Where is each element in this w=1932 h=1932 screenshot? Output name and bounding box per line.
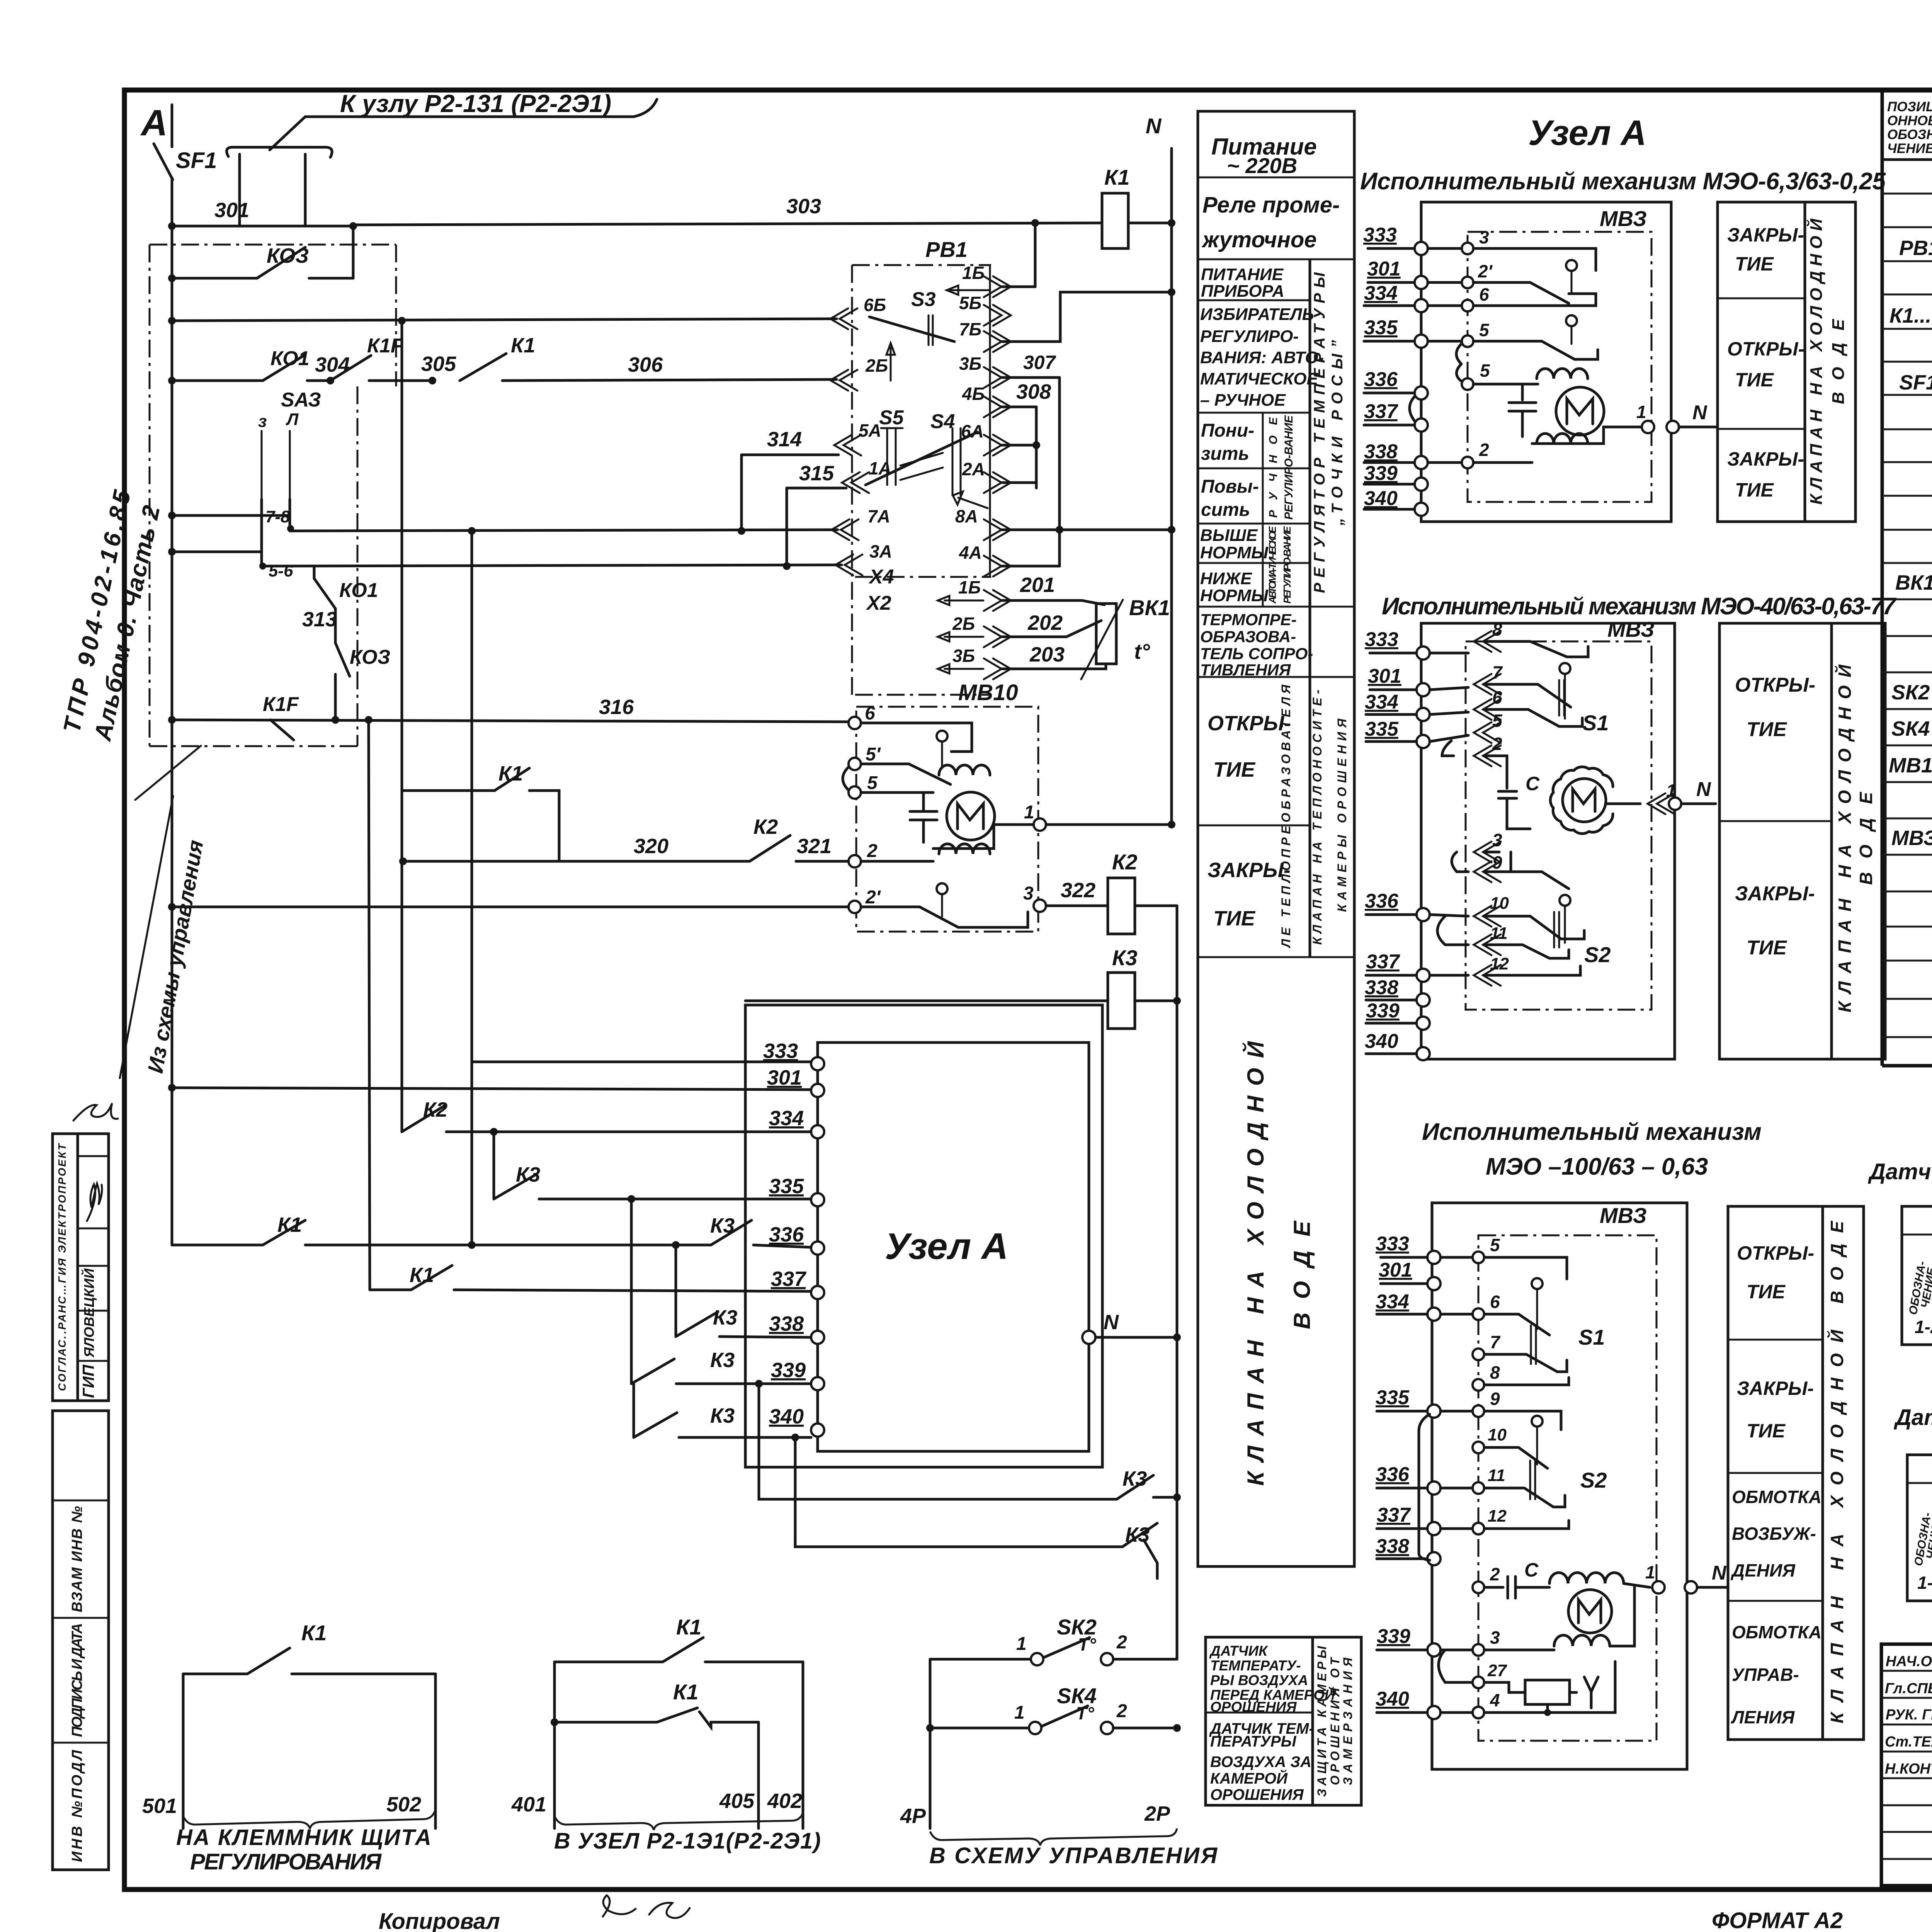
- svg-text:7: 7: [1492, 662, 1503, 682]
- svg-text:Н.КОНТР.: Н.КОНТР.: [1885, 1761, 1932, 1777]
- svg-text:К1: К1: [673, 1680, 699, 1704]
- svg-text:3: 3: [1492, 830, 1502, 850]
- sensor note table: [1206, 1637, 1361, 1805]
- РВ1 pin 4Б: [984, 396, 1011, 417]
- wire pin1/N: [1624, 1583, 1650, 1587]
- svg-text:11: 11: [1488, 1466, 1505, 1485]
- pin 5 lower: [1462, 378, 1473, 390]
- svg-text:6: 6: [1479, 284, 1489, 304]
- svg-text:ТИЕ: ТИЕ: [1735, 479, 1774, 501]
- svg-text:АВТОМА-ТИЧЕСКОЕ: АВТОМА-ТИЧЕСКОЕ: [1267, 526, 1278, 604]
- wires to pin1/N: [1473, 383, 1538, 386]
- svg-text:К1: К1: [1104, 165, 1130, 189]
- svg-text:Пони-: Пони-: [1201, 420, 1254, 441]
- wire 321: [796, 860, 849, 863]
- svg-text:К1F: К1F: [367, 335, 403, 357]
- svg-text:6: 6: [1490, 1292, 1500, 1312]
- РВ1 pin 2А: [984, 472, 1011, 493]
- svg-text:УПРАВ-: УПРАВ-: [1732, 1665, 1799, 1685]
- РВ1 pin 5Б: [984, 305, 1011, 326]
- contact К3 into 340: [633, 1384, 635, 1437]
- svg-text:РВ1: РВ1: [925, 237, 968, 262]
- svg-text:5: 5: [1490, 1235, 1500, 1255]
- bracket to Р2-131: [227, 147, 332, 157]
- valve action table МЭО-100: [1728, 1206, 1864, 1740]
- svg-text:405: 405: [719, 1789, 755, 1813]
- svg-text:SК4: SК4: [1891, 717, 1930, 740]
- svg-text:ПЕРАТУРЫ: ПЕРАТУРЫ: [1210, 1733, 1297, 1750]
- svg-text:~ 220В: ~ 220В: [1227, 153, 1297, 178]
- svg-text:401: 401: [511, 1793, 546, 1816]
- svg-text:Л: Л: [286, 410, 299, 429]
- motor МЭО-40 with scalloped winding: [1563, 779, 1606, 822]
- jumper 336-337: [1410, 396, 1415, 422]
- svg-text:ДАТЧИК: ДАТЧИК: [1209, 1643, 1268, 1659]
- svg-text:335: 335: [1376, 1386, 1410, 1409]
- svg-text:335: 335: [769, 1175, 804, 1198]
- terminal 335.2: [1417, 735, 1430, 748]
- valve action table (МЭО-40): [1719, 623, 1885, 1059]
- N bus (upper): [1170, 148, 1173, 825]
- svg-text:Исполнительный механизм МЭО-: Исполнительный механизм МЭО-40/63-0,63-7…: [1382, 593, 1897, 620]
- wire 6А stub: [1002, 444, 1036, 447]
- svg-text:ТИЕ: ТИЕ: [1747, 937, 1787, 959]
- svg-text:2Б: 2Б: [952, 614, 975, 634]
- svg-text:316: 316: [599, 696, 634, 719]
- svg-text:305: 305: [421, 352, 456, 376]
- svg-text:4: 4: [1490, 1690, 1500, 1710]
- svg-text:К3: К3: [710, 1349, 735, 1372]
- X2 pin 3Б: [984, 658, 1011, 679]
- svg-text:ДЕНИЯ: ДЕНИЯ: [1730, 1560, 1796, 1580]
- svg-text:5: 5: [867, 773, 878, 793]
- svg-text:N: N: [1712, 1562, 1727, 1584]
- stator coil lower: [939, 844, 990, 854]
- svg-text:К2: К2: [753, 815, 778, 838]
- svg-text:322: 322: [1061, 879, 1095, 902]
- wire 1Б-303 riser: [1002, 286, 1035, 288]
- contact К3 into 335: [493, 1132, 495, 1199]
- svg-text:ЗАКРЫ-: ЗАКРЫ-: [1737, 1378, 1814, 1399]
- svg-text:В СХЕМУ УПРАВЛЕНИЯ: В СХЕМУ УПРАВЛЕНИЯ: [929, 1843, 1218, 1868]
- wire 333: [471, 531, 473, 1245]
- svg-text:S1: S1: [1578, 1325, 1605, 1349]
- dash-dot cabinet boundary: [150, 244, 396, 246]
- svg-text:N: N: [1692, 401, 1708, 424]
- terminal 2: [849, 855, 861, 867]
- svg-text:ЗАКРЫ-: ЗАКРЫ-: [1727, 448, 1804, 470]
- svg-text:t°: t°: [1134, 639, 1150, 663]
- limit switch 1 (МЭО-6,3): [1566, 260, 1577, 271]
- valve action table (МЭО-6,3): [1718, 202, 1855, 522]
- svg-text:5-6: 5-6: [269, 561, 293, 580]
- svg-text:SК2: SК2: [1891, 681, 1930, 704]
- terminal box 401/405/402: [553, 1662, 556, 1828]
- SК2 diagram: [1867, 1159, 1932, 1345]
- svg-text:8: 8: [1490, 1362, 1500, 1383]
- svg-text:ОННОЕ: ОННОЕ: [1887, 113, 1932, 128]
- svg-text:РЕГУЛИРО-: РЕГУЛИРО-: [1200, 327, 1299, 346]
- svg-text:КЛАПАН НА ТЕПЛОНОСИТЕ-: КЛАПАН НА ТЕПЛОНОСИТЕ-: [1310, 690, 1324, 945]
- svg-text:N: N: [1696, 778, 1711, 801]
- svg-text:НОРМЫ: НОРМЫ: [1200, 586, 1269, 605]
- svg-text:335: 335: [1364, 316, 1398, 339]
- terminal 301.2: [1417, 683, 1430, 696]
- svg-text:1: 1: [1024, 802, 1034, 823]
- svg-text:Повы-: Повы-: [1201, 476, 1259, 497]
- terminal 337.3: [1427, 1522, 1440, 1535]
- svg-text:336: 336: [1376, 1463, 1410, 1486]
- svg-text:402: 402: [767, 1789, 802, 1813]
- svg-text:338: 338: [1376, 1535, 1409, 1558]
- stator coils: [1537, 369, 1588, 379]
- svg-text:12: 12: [1488, 1507, 1507, 1526]
- svg-text:S5: S5: [879, 406, 904, 429]
- wire 4А stub: [1002, 565, 1060, 568]
- svg-text:КО1: КО1: [270, 347, 310, 370]
- svg-text:502: 502: [386, 1793, 421, 1816]
- svg-text:КО1: КО1: [339, 579, 378, 602]
- svg-text:1-2: 1-2: [1915, 1317, 1932, 1337]
- wire 202: [1002, 621, 1101, 637]
- pin 6: [1462, 300, 1473, 311]
- svg-text:337: 337: [1366, 951, 1400, 973]
- wire 7А row: [290, 530, 838, 531]
- svg-text:ТЕЛЬ СОПРО-: ТЕЛЬ СОПРО-: [1200, 645, 1313, 663]
- N bus (lower): [1176, 906, 1179, 1659]
- svg-text:К узлу Р2-131 (Р2-2Э1): К узлу Р2-131 (Р2-2Э1): [340, 90, 611, 117]
- svg-text:2′: 2′: [1478, 261, 1493, 281]
- РВ1 pin 3А (left): [835, 554, 862, 575]
- svg-text:Ст.ТЕХН.: Ст.ТЕХН.: [1885, 1734, 1932, 1750]
- wire to РВ1 6Б: [172, 319, 837, 321]
- wire 336 with К1 and К3: [172, 1244, 263, 1247]
- svg-text:ОРОШЕНИЯ ОТ: ОРОШЕНИЯ ОТ: [1328, 1657, 1342, 1785]
- РВ1 pin 1А (left): [842, 472, 869, 493]
- contact КО1: [263, 355, 305, 381]
- svg-text:501: 501: [142, 1794, 177, 1818]
- left margin strip: upper group (согласовано): [53, 1134, 109, 1401]
- terminal 334.2: [1417, 708, 1430, 721]
- svg-text:333: 333: [1365, 628, 1398, 651]
- svg-text:334: 334: [1365, 691, 1398, 713]
- contact КОЗ (upper): [172, 277, 257, 280]
- wire 301 to node: [172, 1088, 811, 1090]
- svg-text:з: з: [258, 412, 267, 431]
- svg-text:340: 340: [1364, 487, 1398, 510]
- svg-text:1: 1: [1636, 402, 1646, 422]
- svg-text:РЕГУЛИРОВАНИЯ: РЕГУЛИРОВАНИЯ: [190, 1849, 382, 1874]
- wire 201: [1002, 600, 1104, 605]
- svg-text:ОРОШЕНИЯ: ОРОШЕНИЯ: [1210, 1699, 1297, 1715]
- svg-text:КАМЕРЫ ОРОШЕНИЯ: КАМЕРЫ ОРОШЕНИЯ: [1335, 718, 1349, 912]
- svg-text:7А: 7А: [867, 506, 890, 526]
- svg-text:333: 333: [1376, 1233, 1409, 1255]
- svg-text:К2: К2: [1112, 850, 1138, 874]
- svg-text:ПОДПИСЬ И ДАТА: ПОДПИСЬ И ДАТА: [69, 1623, 85, 1737]
- terminal 301.1: [1415, 276, 1428, 289]
- svg-text:ТИЕ: ТИЕ: [1747, 718, 1787, 741]
- svg-text:3: 3: [1023, 883, 1034, 904]
- terminal 334.1: [1415, 299, 1428, 312]
- svg-text:337: 337: [1377, 1504, 1411, 1526]
- terminal 333: [811, 1057, 824, 1070]
- svg-text:К3: К3: [710, 1214, 735, 1237]
- handwritten mark above strip: [73, 1103, 118, 1121]
- svg-text:ТИЕ: ТИЕ: [1747, 1420, 1786, 1442]
- svg-text:3Б: 3Б: [959, 354, 981, 374]
- svg-text:Узел А: Узел А: [885, 1226, 1008, 1267]
- svg-text:N: N: [1104, 1311, 1119, 1334]
- svg-text:ФОРМАТ А2: ФОРМАТ А2: [1712, 1908, 1843, 1932]
- svg-text:К1F: К1F: [263, 693, 299, 716]
- svg-text:МВЗ: МВЗ: [1600, 206, 1647, 231]
- svg-text:1: 1: [1645, 1562, 1655, 1582]
- svg-text:ЯЛОВЕЦКИЙ: ЯЛОВЕЦКИЙ: [81, 1268, 97, 1358]
- svg-text:338: 338: [769, 1312, 804, 1335]
- svg-text:S3: S3: [911, 288, 936, 311]
- terminal 1: [1034, 818, 1046, 831]
- svg-text:К3: К3: [713, 1306, 737, 1329]
- svg-text:10: 10: [1488, 1425, 1507, 1444]
- contact К1: [460, 354, 506, 381]
- svg-text:340: 340: [1365, 1030, 1398, 1053]
- svg-text:7: 7: [1490, 1332, 1501, 1352]
- svg-text:8: 8: [1492, 619, 1502, 639]
- coupling links S5/S4: [866, 432, 978, 485]
- terminal 336.2: [1417, 908, 1430, 921]
- svg-text:10: 10: [1490, 894, 1509, 913]
- svg-text:1: 1: [1014, 1702, 1025, 1723]
- svg-text:ПИТАНИЕ: ПИТАНИЕ: [1201, 265, 1284, 284]
- svg-text:РВ1: РВ1: [1899, 236, 1932, 260]
- wire to pin1: [1605, 803, 1640, 805]
- svg-text:314: 314: [767, 428, 802, 451]
- svg-text:S4: S4: [930, 410, 955, 433]
- terminal 338.3: [1427, 1552, 1440, 1565]
- svg-text:ПРИБОРА: ПРИБОРА: [1201, 282, 1284, 301]
- SA3 feed wires: [172, 514, 290, 517]
- terminal 336: [811, 1242, 824, 1255]
- limit switch 2 (МЭО-6,3): [1566, 315, 1577, 326]
- svg-text:5Б: 5Б: [959, 293, 981, 313]
- main phase bus: [171, 105, 173, 147]
- svg-text:К3: К3: [1112, 946, 1138, 970]
- thermal sensor BK1: [1096, 604, 1116, 664]
- svg-text:3Б: 3Б: [952, 646, 975, 666]
- svg-text:ЧЕНИЕ: ЧЕНИЕ: [1887, 141, 1932, 156]
- svg-text:КАМЕРОЙ: КАМЕРОЙ: [1210, 1769, 1288, 1787]
- svg-text:ТИЕ: ТИЕ: [1213, 758, 1256, 781]
- РВ1 pin 6А: [984, 435, 1011, 456]
- left margin strip: lower group (инв. номера): [53, 1411, 109, 1870]
- svg-text:313: 313: [302, 608, 337, 631]
- wire 306: [502, 379, 837, 381]
- svg-text:Узел А: Узел А: [1528, 113, 1646, 153]
- terminal 2': [849, 901, 861, 913]
- wire 315: [787, 487, 846, 490]
- svg-text:5А: 5А: [859, 420, 881, 440]
- svg-text:337: 337: [771, 1267, 807, 1291]
- svg-text:340: 340: [1376, 1688, 1409, 1710]
- svg-text:ПОЗИЦИ-: ПОЗИЦИ-: [1887, 99, 1932, 114]
- РВ1 pin 5А (left): [834, 435, 861, 456]
- svg-text:К1: К1: [676, 1615, 702, 1639]
- svg-text:2: 2: [1116, 1701, 1127, 1721]
- svg-text:337: 337: [1364, 400, 1398, 423]
- terminal 337.1: [1415, 418, 1428, 432]
- terminal 337: [811, 1286, 824, 1299]
- motor МВ10: [947, 792, 995, 840]
- bottom wire B with К3: [795, 1437, 1122, 1547]
- svg-text:12: 12: [1490, 954, 1509, 973]
- svg-text:МЭО –100/63 – 0,63: МЭО –100/63 – 0,63: [1486, 1153, 1708, 1180]
- svg-text:ЛЕНИЯ: ЛЕНИЯ: [1731, 1707, 1795, 1727]
- svg-text:жуточное: жуточное: [1201, 227, 1317, 252]
- svg-text:339: 339: [1377, 1625, 1410, 1648]
- svg-text:339: 339: [771, 1359, 806, 1382]
- wire 2А stub: [1002, 481, 1036, 484]
- contact К1F: [330, 355, 371, 381]
- svg-text:Исполнительный механизм: Исполнительный механизм: [1422, 1119, 1762, 1145]
- svg-text:РЕГУЛИРО-ВАНИЕ: РЕГУЛИРО-ВАНИЕ: [1281, 526, 1293, 604]
- terminal 5': [849, 758, 861, 770]
- riser К1F to 333: [369, 720, 370, 1290]
- РВ1 pin 8А: [984, 519, 1011, 540]
- svg-text:МАТИЧЕСКОЕ: МАТИЧЕСКОЕ: [1200, 369, 1318, 388]
- svg-text:ВОЗДУХА ЗА: ВОЗДУХА ЗА: [1210, 1753, 1311, 1770]
- svg-text:2′: 2′: [865, 887, 881, 908]
- wire 316 with К1F contact: [172, 720, 852, 722]
- svg-text:ОБОЗНА-: ОБОЗНА-: [1887, 127, 1932, 142]
- svg-text:202: 202: [1027, 611, 1063, 634]
- МВ3 block (МЭО-6,3): [1421, 202, 1671, 522]
- svg-text:МВЗ: МВЗ: [1607, 617, 1655, 641]
- limit switch upper МВ10: [937, 731, 947, 742]
- wire 3А row: [262, 565, 842, 566]
- svg-text:301: 301: [214, 199, 249, 222]
- X2 pin 1Б: [984, 590, 1011, 611]
- armature coil: [1554, 1635, 1610, 1646]
- electromagnet Y: [1525, 1680, 1570, 1704]
- svg-text:РУК. ГР.: РУК. ГР.: [1886, 1707, 1932, 1723]
- svg-text:зить: зить: [1201, 444, 1249, 464]
- svg-text:ОБРАЗОВА-: ОБРАЗОВА-: [1200, 628, 1296, 646]
- terminal 339: [811, 1377, 824, 1390]
- SK2 / SK4 circuit: [929, 1659, 932, 1828]
- РВ1 pin 7Б: [984, 331, 1011, 352]
- svg-text:ВОЗБУЖ-: ВОЗБУЖ-: [1732, 1524, 1816, 1544]
- svg-text:ТИЕ: ТИЕ: [1213, 907, 1256, 930]
- terminal 340.1: [1415, 503, 1428, 516]
- svg-text:338: 338: [1364, 440, 1398, 463]
- svg-text:Т°: Т°: [1076, 1703, 1094, 1723]
- terminal 340.2: [1417, 1047, 1430, 1060]
- svg-text:Х2: Х2: [866, 592, 891, 614]
- svg-text:1Б: 1Б: [958, 577, 981, 597]
- terminal box 501/502: [182, 1674, 185, 1828]
- pin 2': [1462, 277, 1473, 288]
- svg-text:334: 334: [769, 1107, 804, 1130]
- arrow up (setpoint): [886, 343, 895, 381]
- svg-text:ТЕРМОПРЕ-: ТЕРМОПРЕ-: [1200, 611, 1297, 629]
- svg-text:6Б: 6Б: [864, 295, 886, 315]
- terminal 5: [849, 786, 861, 799]
- wire to 2' from bus: [172, 906, 849, 908]
- terminal 337.2: [1417, 969, 1430, 982]
- capacitor МВ10: [910, 793, 937, 842]
- svg-text:6: 6: [1492, 687, 1502, 707]
- svg-text:ИЗБИРАТЕЛЬ: ИЗБИРАТЕЛЬ: [1200, 305, 1314, 324]
- terminal 340: [811, 1423, 824, 1437]
- svg-text:4Б: 4Б: [962, 384, 985, 404]
- svg-text:ТИЕ: ТИЕ: [1735, 369, 1774, 391]
- svg-text:Датчик температуры: Датчик температуры: [1867, 1159, 1932, 1184]
- svg-text:321: 321: [797, 835, 832, 858]
- arrow into 5Б: [947, 286, 989, 295]
- РВ1 pin 6Б (left): [830, 308, 857, 329]
- wire 322 / coil К2: [1046, 905, 1108, 907]
- wire 303: [353, 223, 1102, 225]
- wiring 5 to motor: [861, 791, 933, 794]
- svg-text:РЫ ВОЗДУХА: РЫ ВОЗДУХА: [1210, 1672, 1308, 1688]
- svg-text:333: 333: [1363, 224, 1397, 246]
- svg-text:303: 303: [786, 195, 821, 218]
- svg-text:НОРМЫ: НОРМЫ: [1200, 543, 1269, 562]
- terminal 335.1: [1415, 335, 1428, 348]
- jumper 5'-5: [843, 767, 849, 790]
- contact К3 into 338: [675, 1245, 677, 1337]
- wire 7Б to N bus: [1002, 292, 1172, 342]
- wire 1 to N bus: [1046, 823, 1172, 826]
- svg-text:В УЗЕЛ Р2-1Э1(Р2-2Э1): В УЗЕЛ Р2-1Э1(Р2-2Э1): [554, 1828, 821, 1854]
- svg-text:ОБМОТКА: ОБМОТКА: [1732, 1487, 1821, 1507]
- svg-text:338: 338: [1365, 976, 1398, 999]
- svg-text:3: 3: [1479, 227, 1489, 247]
- motor МЭО-100: [1568, 1590, 1612, 1633]
- svg-text:2: 2: [1492, 734, 1502, 754]
- pin 3: [1462, 243, 1473, 254]
- svg-text:339: 339: [1364, 462, 1398, 485]
- wire 301: [172, 225, 353, 228]
- svg-text:ОТКРЫ-: ОТКРЫ-: [1737, 1242, 1814, 1264]
- svg-text:– РУЧНОЕ: – РУЧНОЕ: [1200, 391, 1286, 410]
- wire 307: [1002, 376, 1060, 379]
- svg-text:SF1: SF1: [1899, 371, 1932, 394]
- svg-text:ОРОШЕНИЯ: ОРОШЕНИЯ: [1210, 1786, 1304, 1803]
- pins (chevrons) МЭО-40: [1474, 631, 1501, 652]
- svg-text:5: 5: [1479, 320, 1490, 340]
- svg-text:К1: К1: [511, 334, 535, 357]
- svg-text:306: 306: [628, 353, 663, 376]
- terminal 338: [811, 1331, 824, 1344]
- svg-text:335: 335: [1365, 718, 1399, 740]
- РВ1 pin 1Б: [984, 276, 1011, 297]
- terminal 339.1: [1415, 478, 1428, 491]
- terminal 301.3: [1427, 1277, 1440, 1290]
- svg-text:А: А: [140, 102, 168, 143]
- chain КО1/313/КОЗ: [313, 566, 316, 578]
- svg-text:Т°: Т°: [1078, 1634, 1096, 1655]
- svg-text:1-2: 1-2: [1917, 1573, 1932, 1593]
- svg-text:ВК1: ВК1: [1129, 595, 1170, 620]
- svg-text:2Б: 2Б: [865, 355, 888, 376]
- terminal 338.1: [1415, 456, 1428, 469]
- svg-text:Копировал: Копировал: [379, 1909, 500, 1932]
- svg-text:315: 315: [799, 462, 834, 485]
- terminal 339.2: [1417, 1017, 1430, 1030]
- svg-text:НАЧ.ОТД.: НАЧ.ОТД.: [1886, 1653, 1932, 1670]
